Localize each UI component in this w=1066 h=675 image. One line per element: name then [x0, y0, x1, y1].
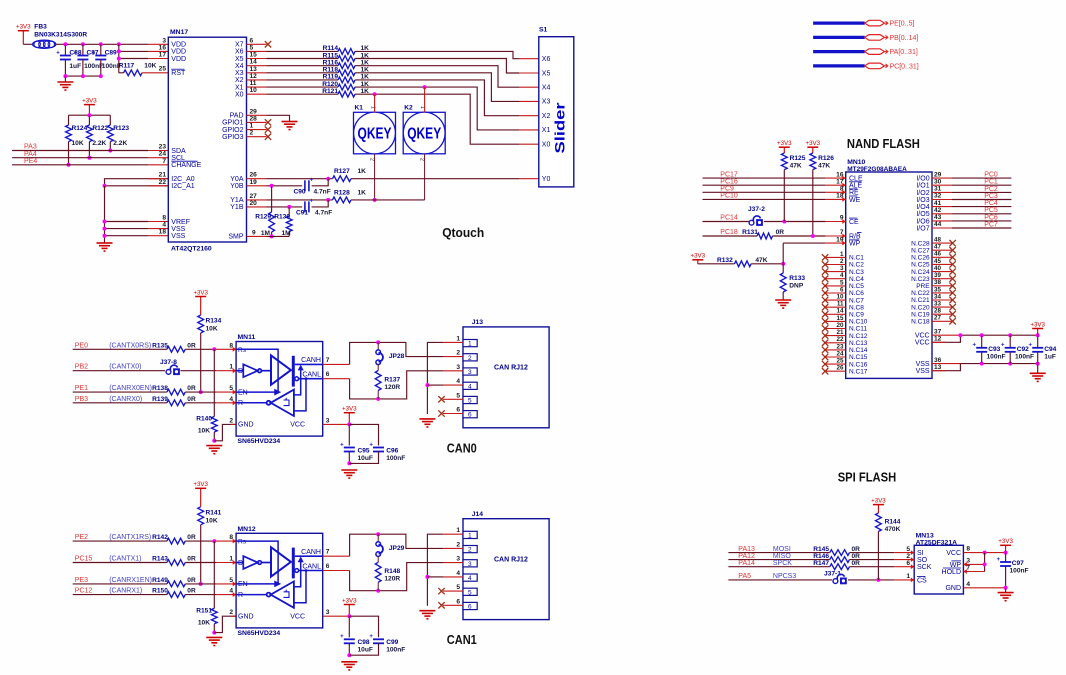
- svg-text:R143: R143: [152, 556, 168, 563]
- bus PA[0..31]: [813, 49, 918, 56]
- svg-text:N.C8: N.C8: [849, 304, 864, 311]
- svg-text:120R: 120R: [384, 384, 400, 391]
- svg-text:4: 4: [468, 575, 472, 582]
- jumper JP28: [376, 342, 405, 364]
- svg-text:13: 13: [934, 364, 942, 371]
- svg-text:0R: 0R: [187, 396, 196, 403]
- svg-text:47K: 47K: [755, 257, 767, 264]
- Rs internal wire: [236, 541, 279, 586]
- svg-text:X0: X0: [235, 92, 244, 99]
- svg-text:SMP: SMP: [228, 234, 244, 241]
- svg-text:GND: GND: [238, 614, 254, 621]
- pin CE 9: [826, 221, 846, 223]
- J13 pin 3: [443, 370, 463, 372]
- svg-text:I/O4: I/O4: [916, 204, 929, 211]
- bus PB[0..14]: [813, 35, 918, 42]
- svg-text:CAN1: CAN1: [447, 633, 477, 647]
- pin Y0B 19: [247, 185, 267, 187]
- svg-text:JP28: JP28: [389, 353, 405, 360]
- svg-text:19: 19: [250, 179, 258, 186]
- svg-text:5: 5: [456, 392, 460, 399]
- pin N.C22 35 no-connect: [932, 292, 953, 294]
- svg-text:C94: C94: [1044, 346, 1056, 353]
- svg-text:3: 3: [326, 609, 330, 616]
- power +3V3 (R132): [690, 253, 705, 264]
- pin N.C21 34 no-connect: [932, 299, 953, 301]
- svg-text:1K: 1K: [358, 189, 367, 196]
- svg-text:20: 20: [836, 322, 844, 329]
- capacitor C90 4.7nF: [305, 177, 314, 191]
- svg-text:VDD: VDD: [171, 42, 186, 49]
- svg-text:I/O3: I/O3: [916, 197, 929, 204]
- svg-text:2: 2: [418, 158, 424, 161]
- svg-text:+: +: [369, 634, 373, 640]
- svg-text:I/O0: I/O0: [916, 176, 929, 183]
- pin CANL 6: [323, 378, 350, 380]
- resistor R127 1K: [333, 176, 352, 182]
- wire VREF: [105, 221, 149, 223]
- svg-text:VCC: VCC: [290, 422, 305, 429]
- svg-text:21: 21: [159, 172, 167, 179]
- power +3V3 (FB3 input): [16, 24, 31, 45]
- power +3V3 (VCC): [342, 406, 357, 425]
- wire VDD branch vertical: [118, 44, 120, 73]
- svg-text:14: 14: [836, 308, 844, 315]
- resistor R129 1M: [271, 186, 273, 212]
- pin N.C25 45 no-connect: [932, 263, 953, 265]
- svg-text:AT25DF321A: AT25DF321A: [916, 539, 958, 546]
- svg-text:4: 4: [840, 272, 844, 279]
- svg-text:PC17: PC17: [720, 171, 738, 178]
- svg-text:R151: R151: [196, 607, 212, 614]
- svg-text:Rs: Rs: [238, 539, 247, 546]
- svg-text:X6: X6: [235, 49, 244, 56]
- ground R133: [775, 300, 791, 308]
- svg-text:1: 1: [906, 573, 910, 580]
- wire CANH loop: [350, 342, 443, 364]
- svg-text:1: 1: [250, 123, 254, 130]
- svg-text:+3V3: +3V3: [342, 597, 357, 604]
- svg-text:+: +: [996, 557, 1000, 563]
- pin N.C17 26 no-connect: [822, 368, 828, 374]
- svg-text:PA14: PA14: [738, 560, 755, 567]
- svg-text:PB[0..14]: PB[0..14]: [890, 35, 919, 42]
- svg-text:6: 6: [468, 412, 472, 419]
- svg-text:I/O2: I/O2: [916, 190, 929, 197]
- svg-text:C98: C98: [358, 639, 370, 646]
- resistor R146 0R: [728, 559, 829, 561]
- svg-text:GPIO3: GPIO3: [222, 134, 244, 141]
- svg-text:20: 20: [250, 200, 258, 207]
- wire J14 pin1/pin4 ground bus: [427, 534, 443, 606]
- svg-text:5: 5: [250, 44, 254, 51]
- svg-text:PC[0..31]: PC[0..31]: [890, 63, 919, 70]
- svg-text:+: +: [56, 50, 60, 56]
- wire VCC rail: [960, 334, 1037, 336]
- svg-text:Qtouch: Qtouch: [442, 225, 484, 240]
- svg-text:PC18: PC18: [720, 229, 738, 236]
- capacitor C89 100nF: [100, 44, 102, 55]
- wire K1 pin2: [374, 154, 376, 200]
- svg-text:1: 1: [468, 532, 472, 539]
- svg-text:+: +: [74, 50, 78, 56]
- svg-text:VDD: VDD: [171, 49, 186, 56]
- pin CHANGE 7: [148, 164, 168, 166]
- wire CLE: [703, 177, 826, 179]
- wire CANL loop: [350, 563, 443, 591]
- svg-text:J14: J14: [472, 511, 484, 518]
- svg-text:35: 35: [934, 286, 942, 293]
- pin I/O5 42: [932, 213, 952, 215]
- driver input buffer: [236, 364, 271, 377]
- svg-text:DNP: DNP: [789, 283, 804, 290]
- wire CANTX: [73, 370, 165, 372]
- pin N.C13 22 no-connect: [822, 340, 828, 346]
- pin CLE 16: [826, 177, 846, 179]
- pin N.C6 6 no-connect: [822, 290, 828, 296]
- resistor R124 10K: [68, 115, 70, 125]
- pin N.C8 11 no-connect: [822, 304, 828, 310]
- IC MN13 AT25DF321A body: [914, 545, 963, 594]
- svg-text:41: 41: [934, 200, 942, 207]
- pin N.C28 48 no-connect: [932, 242, 953, 244]
- capacitor C87 100nF: [82, 44, 84, 55]
- resistor R121 1K: [267, 93, 339, 95]
- wire X3 to slider: [355, 73, 519, 102]
- svg-text:JP29: JP29: [389, 545, 405, 552]
- J14 pin5 no-connect: [438, 588, 444, 594]
- svg-text:30: 30: [934, 178, 942, 185]
- svg-text:+: +: [340, 634, 344, 640]
- svg-text:N.C5: N.C5: [849, 283, 864, 290]
- svg-text:6: 6: [326, 371, 330, 378]
- svg-text:PA4: PA4: [24, 151, 37, 158]
- svg-text:0R: 0R: [187, 577, 196, 584]
- svg-text:R121: R121: [322, 88, 338, 95]
- svg-text:VREF: VREF: [171, 219, 190, 226]
- pin GPIO1 28 no-connect: [247, 121, 267, 123]
- svg-text:3: 3: [456, 556, 460, 563]
- svg-text:10K: 10K: [72, 140, 84, 147]
- svg-text:VCC: VCC: [915, 340, 930, 347]
- pin N.C27 47 no-connect: [932, 249, 953, 251]
- svg-text:PC9: PC9: [720, 186, 734, 193]
- pin CANL 6: [323, 570, 350, 572]
- pin VREF 8: [148, 221, 168, 223]
- svg-text:K2: K2: [404, 105, 413, 112]
- pin PAD 29: [247, 114, 267, 116]
- svg-text:10K: 10K: [198, 428, 210, 435]
- svg-text:+: +: [340, 442, 344, 448]
- pin VCC 37: [932, 334, 960, 336]
- ferrite bead FB3: [33, 24, 88, 49]
- svg-text:33: 33: [934, 301, 942, 308]
- svg-text:0R: 0R: [187, 588, 196, 595]
- svg-text:+3V3: +3V3: [805, 140, 820, 147]
- driver output stage: [271, 355, 323, 386]
- svg-text:X2: X2: [235, 77, 244, 84]
- svg-text:0R: 0R: [776, 229, 785, 236]
- svg-text:10: 10: [250, 87, 258, 94]
- svg-text:Slider: Slider: [552, 102, 568, 154]
- pin X6 5: [247, 50, 267, 52]
- wire J13 pin1/pin4 ground bus: [427, 342, 443, 414]
- pin N.C20 33 no-connect: [932, 306, 953, 308]
- jumper JP29: [376, 534, 405, 556]
- svg-text:3: 3: [468, 561, 472, 568]
- pin Rs 8: [216, 348, 236, 350]
- svg-text:28: 28: [250, 115, 258, 122]
- wire +3V3 to FB3: [23, 43, 33, 45]
- svg-text:R148: R148: [384, 568, 400, 575]
- svg-text:MN11: MN11: [238, 334, 256, 341]
- svg-text:PC15: PC15: [75, 556, 93, 563]
- svg-text:Y0A: Y0A: [230, 176, 244, 183]
- svg-text:5: 5: [906, 546, 910, 553]
- resistor R139 0R: [73, 402, 167, 404]
- pin I/O1 30: [932, 184, 952, 186]
- capacitor C91 4.7nF: [305, 198, 314, 212]
- pin VDD 3: [148, 43, 168, 45]
- ground VCC caps: [341, 470, 357, 478]
- wire X2 to slider: [355, 80, 519, 116]
- resistor R132 47K: [698, 263, 735, 265]
- svg-text:+: +: [92, 50, 96, 56]
- svg-text:6: 6: [326, 563, 330, 570]
- svg-text:+3V3: +3V3: [82, 97, 97, 104]
- ground Rs divider: [206, 446, 222, 454]
- resistor R141 10K: [198, 507, 204, 525]
- svg-text:N.C16: N.C16: [849, 361, 868, 368]
- svg-text:27: 27: [250, 193, 258, 200]
- wire CANH loop: [350, 534, 443, 556]
- svg-text:N.C19: N.C19: [911, 311, 930, 318]
- svg-text:+3V3: +3V3: [342, 406, 357, 413]
- pin VCC 12: [932, 335, 960, 342]
- svg-text:100nF: 100nF: [987, 353, 1006, 360]
- IC MN17 AT42QT2160 body: [168, 37, 246, 242]
- pin VSS 4: [148, 228, 168, 230]
- svg-text:+3V3: +3V3: [998, 538, 1013, 545]
- svg-text:2: 2: [456, 350, 460, 357]
- svg-text:0R: 0R: [852, 560, 861, 567]
- J13 pin 5: [443, 398, 463, 400]
- svg-text:R119: R119: [323, 74, 339, 81]
- svg-text:2: 2: [229, 417, 233, 424]
- svg-text:X4: X4: [235, 63, 244, 70]
- svg-text:15: 15: [250, 52, 258, 59]
- pin GPIO2 1 no-connect: [247, 129, 267, 131]
- svg-text:PC16: PC16: [720, 178, 738, 185]
- svg-text:1K: 1K: [358, 168, 367, 175]
- wire CE left: [703, 221, 750, 223]
- svg-text:R135: R135: [152, 342, 168, 349]
- slider pin X6: [519, 58, 539, 60]
- svg-text:N.C11: N.C11: [849, 326, 867, 333]
- pin N.C16 25 no-connect: [822, 361, 828, 367]
- J13 pin6 no-connect: [438, 410, 444, 416]
- pin CANH 7: [323, 363, 350, 365]
- receiver gate: [236, 558, 307, 608]
- ground J13: [419, 419, 435, 427]
- svg-text:Y1B: Y1B: [230, 204, 244, 211]
- svg-text:+3V3: +3V3: [193, 481, 208, 488]
- pin X1 11: [247, 86, 267, 88]
- svg-text:J37-1: J37-1: [824, 571, 841, 578]
- pin CS 1: [894, 579, 914, 581]
- svg-text:8: 8: [966, 546, 970, 553]
- svg-text:SO: SO: [917, 557, 928, 564]
- svg-text:MT29F2G08ABAEA: MT29F2G08ABAEA: [847, 166, 907, 173]
- svg-text:SPI FLASH: SPI FLASH: [838, 469, 897, 484]
- capacitor C88 1uF: [64, 44, 66, 55]
- svg-text:X1: X1: [542, 127, 551, 134]
- svg-text:5: 5: [468, 398, 472, 405]
- power +3V3 (NAND VCC): [1030, 321, 1045, 335]
- J14 pin 1: [443, 533, 463, 535]
- svg-text:R130: R130: [274, 214, 290, 221]
- touch key K2 QKEY: [403, 105, 445, 162]
- junction caps rail: [63, 42, 67, 46]
- resistor R142 0R: [73, 540, 167, 542]
- pin D 1: [216, 562, 236, 564]
- svg-text:6: 6: [456, 598, 460, 605]
- svg-text:29: 29: [250, 108, 258, 115]
- svg-text:WE: WE: [849, 197, 861, 204]
- svg-text:5: 5: [456, 584, 460, 591]
- svg-text:25: 25: [836, 358, 844, 365]
- svg-text:R115: R115: [323, 52, 339, 59]
- pin N.C18 27 no-connect: [932, 320, 953, 322]
- svg-text:2: 2: [369, 158, 375, 161]
- resistor R137 120R: [377, 365, 379, 371]
- svg-text:6: 6: [250, 37, 254, 44]
- svg-text:2: 2: [250, 130, 254, 137]
- svg-text:PB3: PB3: [75, 396, 88, 403]
- svg-text:PC4: PC4: [984, 200, 998, 207]
- J14 pin 6: [443, 604, 463, 606]
- svg-text:3: 3: [468, 369, 472, 376]
- pin VCC 3: [323, 423, 350, 425]
- svg-text:(CANTX0RS): (CANTX0RS): [109, 342, 151, 349]
- wire I2C address ground vertical: [104, 186, 106, 243]
- svg-text:2: 2: [456, 541, 460, 548]
- pin SI 5: [894, 552, 914, 554]
- svg-text:0R: 0R: [187, 556, 196, 563]
- svg-text:CHANGE: CHANGE: [171, 162, 201, 169]
- pin SDA 23: [148, 150, 168, 152]
- svg-text:R128: R128: [334, 189, 350, 196]
- svg-text:X4: X4: [542, 85, 551, 92]
- svg-text:I/O1: I/O1: [916, 183, 929, 190]
- svg-text:PC5: PC5: [984, 207, 998, 214]
- capacitor C93 100nF: [981, 335, 983, 348]
- svg-text:15: 15: [836, 315, 844, 322]
- svg-text:MN17: MN17: [170, 29, 188, 36]
- J14 pin 5: [443, 590, 463, 592]
- svg-text:10K: 10K: [198, 619, 210, 626]
- J13 pin 6: [443, 413, 463, 415]
- power +3V3 (VCC): [342, 597, 357, 616]
- svg-text:37: 37: [934, 328, 942, 335]
- svg-text:25: 25: [159, 65, 167, 72]
- svg-text:+3V3: +3V3: [193, 289, 208, 296]
- pin SCK 6: [894, 566, 914, 568]
- svg-text:7: 7: [326, 357, 330, 364]
- connector J14 CAN RJ12 body: [463, 511, 549, 620]
- resistor R133 DNP: [780, 273, 786, 292]
- svg-text:8: 8: [162, 215, 166, 222]
- wire I2C_A0: [105, 179, 169, 186]
- svg-text:SCK: SCK: [917, 564, 932, 571]
- capacitor C92 100nF: [1009, 335, 1011, 348]
- svg-text:47: 47: [934, 244, 942, 251]
- svg-text:4.7nF: 4.7nF: [314, 189, 331, 196]
- wire Y1A: [267, 199, 333, 201]
- resistor R149 0R: [73, 583, 167, 585]
- IC pin names: [238, 347, 321, 429]
- IC MN10 MT29F2G08ABAEA body: [846, 172, 932, 378]
- wire SMP: [267, 235, 290, 237]
- svg-text:N.C24: N.C24: [911, 269, 930, 276]
- svg-text:4.7nF: 4.7nF: [315, 210, 332, 217]
- svg-text:4: 4: [468, 383, 472, 390]
- svg-text:7: 7: [326, 549, 330, 556]
- svg-text:R146: R146: [813, 553, 829, 560]
- svg-text:R144: R144: [885, 519, 901, 526]
- svg-text:X1: X1: [235, 84, 244, 91]
- svg-text:MN10: MN10: [847, 159, 865, 166]
- resistor R140 10K: [213, 349, 215, 416]
- svg-text:5: 5: [468, 589, 472, 596]
- svg-text:MISO: MISO: [773, 553, 791, 560]
- pin I/O0 29: [932, 177, 952, 179]
- svg-text:VSS: VSS: [916, 361, 930, 368]
- svg-text:43: 43: [934, 214, 942, 221]
- svg-text:CE: CE: [849, 219, 859, 226]
- svg-text:I2C_A1: I2C_A1: [171, 183, 194, 190]
- J14 pin 3: [443, 562, 463, 564]
- pin WP 19: [826, 242, 846, 244]
- svg-text:N.C23: N.C23: [911, 276, 930, 283]
- pin GPIO3 2 no-connect: [247, 136, 267, 138]
- wire PAD to ground: [267, 115, 290, 121]
- svg-text:C91: C91: [296, 210, 308, 217]
- ground NAND caps: [1037, 364, 1039, 374]
- wire VDD rail: [56, 43, 148, 45]
- svg-text:R117: R117: [119, 63, 135, 70]
- svg-text:3: 3: [326, 417, 330, 424]
- wire SCL: [12, 157, 148, 159]
- ground J14: [419, 611, 435, 619]
- J14 pin 2: [443, 547, 463, 549]
- svg-text:PAD: PAD: [230, 113, 244, 120]
- ground I2C/VSS: [97, 243, 113, 251]
- resistor R144 470K: [876, 513, 882, 532]
- svg-text:17: 17: [159, 52, 167, 59]
- pin PRE 38 no-connect: [932, 285, 953, 287]
- resistor R145 0R: [728, 552, 829, 554]
- svg-text:SDA: SDA: [171, 148, 186, 155]
- svg-text:WP: WP: [849, 241, 861, 248]
- svg-text:N.C27: N.C27: [911, 247, 930, 254]
- wire K1 pin1: [374, 94, 376, 112]
- resistor R117 10K: [124, 70, 142, 76]
- svg-text:PA12: PA12: [738, 553, 755, 560]
- svg-text:26: 26: [250, 172, 258, 179]
- pin VSS 18: [148, 235, 168, 237]
- svg-text:2: 2: [468, 547, 472, 554]
